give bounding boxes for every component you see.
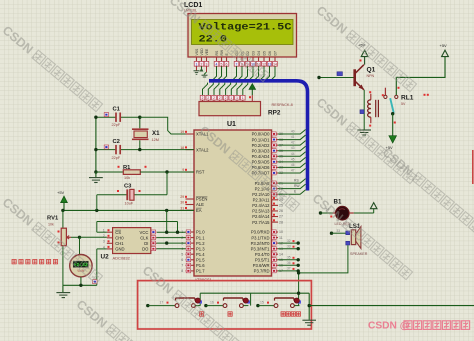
svg-text:P2.5/A13: P2.5/A13: [252, 209, 270, 214]
svg-text:44: 44: [291, 152, 295, 156]
svg-text:47: 47: [291, 168, 295, 172]
svg-text:6: 6: [226, 62, 228, 66]
svg-text:3: 3: [206, 62, 208, 66]
svg-text:U1: U1: [227, 121, 236, 128]
svg-text:DO: DO: [142, 247, 149, 252]
+5V arrow above Q1: [358, 43, 368, 65]
U2 wires: CS left loop, CLK/DI/DO to P1: [97, 232, 186, 249]
svg-text:8: 8: [181, 269, 183, 273]
svg-text:7: 7: [236, 62, 238, 66]
red CJK button labels: [200, 312, 301, 316]
svg-text:NPN: NPN: [367, 74, 375, 78]
svg-text:30: 30: [180, 201, 184, 205]
LCD data/control wires into bus: [213, 66, 275, 79]
+5V power arrow (left): [57, 190, 67, 210]
svg-text:40: 40: [291, 130, 295, 134]
svg-text:P3.7/RD: P3.7/RD: [254, 269, 270, 274]
U1 left pins: [186, 133, 195, 135]
U1 right pins P2: [272, 182, 279, 184]
speaker bottom wire to ground rail: [299, 245, 348, 293]
svg-text:CLK: CLK: [140, 236, 148, 241]
ADC U2 (ADC0832): [113, 228, 151, 254]
svg-text:2: 2: [219, 96, 221, 100]
svg-text:P3.3/INT1: P3.3/INT1: [251, 246, 271, 251]
svg-text:6: 6: [181, 258, 183, 262]
svg-text:RL1: RL1: [401, 95, 414, 102]
svg-text:SPEAKER: SPEAKER: [350, 252, 368, 256]
svg-text:27: 27: [279, 215, 283, 219]
svg-text:P0.2/AD2: P0.2/AD2: [252, 143, 271, 148]
svg-text:Q1: Q1: [367, 67, 376, 74]
svg-text:+5V: +5V: [440, 43, 448, 48]
svg-text:P3.4/T0: P3.4/T0: [255, 252, 270, 257]
svg-text:3: 3: [103, 240, 105, 244]
push button 2 (minus): [204, 298, 250, 308]
svg-text:32: 32: [287, 239, 291, 243]
svg-text:36: 36: [287, 261, 291, 265]
LED B1 (LED-RED): [319, 199, 354, 227]
svg-text:D3: D3: [251, 51, 255, 55]
svg-text:P0.3/AD3: P0.3/AD3: [252, 148, 271, 153]
svg-text:P2.3/A11: P2.3/A11: [253, 198, 271, 203]
svg-text:U2: U2: [101, 253, 110, 260]
svg-text:2: 2: [207, 96, 209, 100]
voltmeter: [70, 237, 92, 285]
svg-text:P2.7/A15: P2.7/A15: [252, 220, 270, 225]
svg-text:RS: RS: [215, 50, 219, 55]
svg-text:RESPACK-8: RESPACK-8: [272, 103, 293, 107]
svg-text:11: 11: [279, 236, 283, 240]
svg-text:22pF: 22pF: [112, 123, 121, 127]
svg-text:5: 5: [221, 62, 223, 66]
svg-text:VCC: VCC: [140, 230, 149, 235]
svg-text:25: 25: [279, 204, 283, 208]
svg-text:P1.0: P1.0: [196, 230, 205, 235]
svg-text:46: 46: [291, 163, 295, 167]
relay pole to +5V down arrow: [386, 114, 397, 150]
svg-text:33: 33: [287, 245, 291, 249]
U2 GND to ground rail: [97, 248, 107, 250]
svg-text:4: 4: [216, 62, 218, 66]
svg-text:2: 2: [202, 96, 204, 100]
svg-text:D5: D5: [262, 51, 266, 55]
left ground rail + ground: [89, 116, 103, 183]
svg-text:10: 10: [279, 230, 283, 234]
svg-text:+5V: +5V: [57, 190, 65, 195]
svg-text:CH1: CH1: [115, 241, 124, 246]
svg-text:PSEN: PSEN: [196, 197, 207, 202]
resistor R1 10k: [96, 165, 194, 180]
svg-text:P3.5/T1: P3.5/T1: [255, 258, 270, 263]
svg-text:12: 12: [262, 62, 266, 66]
bus (LCD data bus to P0/P2): [209, 81, 308, 191]
potentiometer RV1 10k (soil moisture sensor): [47, 216, 81, 286]
relay RL1 switch: [382, 87, 429, 116]
relay RL1 coil: [368, 91, 379, 126]
svg-text:P1.1: P1.1: [196, 235, 205, 240]
svg-text:P1.6: P1.6: [196, 263, 205, 268]
LED to +5V arrow: [354, 203, 377, 213]
stray red mark right edge: [472, 150, 474, 184]
svg-text:P1.4: P1.4: [196, 252, 205, 257]
svg-text:D6: D6: [268, 51, 272, 55]
supply loop to U2 VCC / CS: [97, 210, 186, 234]
LCD LCD1 (LM016L): [184, 2, 297, 57]
svg-text:P3.6/WR: P3.6/WR: [253, 263, 270, 268]
svg-text:2: 2: [201, 62, 203, 66]
svg-text:VSS: VSS: [195, 48, 199, 56]
capacitor C2 22pF: [96, 139, 194, 160]
push button 1 (set): [146, 298, 202, 308]
svg-text:2: 2: [225, 96, 227, 100]
U1 right pins P3: [272, 231, 279, 233]
svg-text:14: 14: [273, 62, 277, 66]
svg-text:P0.0/AD0: P0.0/AD0: [252, 132, 271, 137]
svg-text:GND: GND: [115, 247, 124, 252]
svg-text:17: 17: [160, 301, 164, 305]
svg-text:2: 2: [103, 234, 105, 238]
svg-text:RP2: RP2: [268, 110, 281, 117]
svg-text:31: 31: [180, 206, 184, 210]
svg-text:1: 1: [236, 96, 238, 100]
svg-text:RS: RS: [294, 179, 299, 183]
svg-text:35: 35: [287, 256, 291, 260]
+5V rail to EA: [61, 195, 194, 228]
svg-text:1: 1: [196, 62, 198, 66]
resistor pack RP2 (RESPACK-8): [199, 83, 293, 117]
svg-text:10k: 10k: [48, 222, 54, 226]
red label: soil moisture sensor (CJK placeholder): [12, 260, 58, 264]
svg-text:RST: RST: [196, 170, 205, 175]
svg-text:P3.0/RXD: P3.0/RXD: [251, 230, 270, 235]
svg-text:P2.6/A14: P2.6/A14: [252, 214, 270, 219]
svg-text:RW: RW: [220, 49, 224, 55]
svg-text:41: 41: [291, 135, 295, 139]
pink CSDN watermark: [368, 321, 470, 332]
svg-text:1: 1: [242, 96, 244, 100]
wire: crystal top node to XTAL1: [140, 117, 186, 134]
svg-text:ALE: ALE: [196, 202, 204, 207]
svg-text:RW: RW: [294, 184, 300, 188]
U1 right pins P0: [272, 133, 279, 135]
svg-text:P0.5/AD5: P0.5/AD5: [252, 160, 271, 165]
svg-text:33: 33: [337, 229, 341, 233]
crystal X1 12M: [132, 116, 160, 152]
svg-text:28: 28: [279, 220, 283, 224]
capacitor C3 10uF (electrolytic): [97, 172, 167, 206]
svg-text:VDD: VDD: [200, 48, 204, 56]
svg-text:P1.3: P1.3: [196, 246, 205, 251]
svg-text:26: 26: [279, 209, 283, 213]
svg-text:15: 15: [260, 301, 264, 305]
svg-text:1: 1: [230, 96, 232, 100]
speaker LS1: [330, 223, 368, 256]
svg-text:DI: DI: [144, 241, 148, 246]
svg-text:CS: CS: [115, 230, 121, 235]
svg-text:16: 16: [210, 301, 214, 305]
svg-text:12M: 12M: [152, 138, 159, 142]
svg-text:45: 45: [291, 157, 295, 161]
svg-text:ADC0832: ADC0832: [113, 255, 131, 260]
svg-text:43: 43: [291, 146, 295, 150]
svg-text:P2.2/A10: P2.2/A10: [252, 192, 270, 197]
svg-text:29: 29: [180, 195, 184, 199]
svg-text:22pF: 22pF: [112, 156, 121, 160]
LCD power pin symbols (VSS gnd, VDD +5V, VEE gnd): [194, 66, 208, 77]
svg-text:5V: 5V: [401, 102, 406, 106]
Q1 emitter to ground: [357, 90, 371, 135]
svg-text:P3.2/INT0: P3.2/INT0: [251, 241, 271, 246]
svg-text:13: 13: [268, 62, 272, 66]
svg-text:X1: X1: [152, 130, 160, 137]
bottom ground rail + ground: [56, 284, 96, 298]
svg-text:P0.4/AD4: P0.4/AD4: [252, 154, 271, 159]
svg-text:P1.2: P1.2: [196, 241, 205, 246]
svg-text:P3.1/TXD: P3.1/TXD: [251, 235, 269, 240]
svg-text:14: 14: [279, 252, 283, 256]
LCD pin names: [195, 48, 277, 56]
svg-text:C3: C3: [124, 184, 132, 190]
svg-text:XTAL2: XTAL2: [196, 147, 209, 152]
svg-text:CH0: CH0: [115, 236, 124, 241]
svg-text:P1.7: P1.7: [196, 269, 205, 274]
svg-text:10k: 10k: [124, 176, 130, 180]
+5V feed to relay contact (top right): [396, 43, 448, 95]
svg-text:C1: C1: [113, 107, 121, 113]
svg-text:D7: D7: [273, 51, 277, 55]
svg-text:C2: C2: [113, 139, 120, 145]
svg-text:42: 42: [291, 141, 295, 145]
svg-text:2: 2: [213, 96, 215, 100]
capacitor C1 22pF: [96, 107, 140, 128]
LCD pin stubs and pin-number boxes 1-14: [194, 57, 277, 66]
push button 3 (auto): [256, 298, 301, 308]
svg-text:P1.5: P1.5: [196, 258, 205, 263]
svg-text:P2.4/A12: P2.4/A12: [252, 203, 270, 208]
svg-text:VEE: VEE: [205, 48, 209, 56]
svg-text:5: 5: [181, 252, 183, 256]
red button box: [138, 281, 312, 329]
svg-text:EA: EA: [196, 208, 202, 213]
svg-text:10uF: 10uF: [125, 202, 134, 206]
svg-text:37: 37: [287, 267, 291, 271]
svg-text:7: 7: [181, 264, 183, 268]
transistor Q1 NPN: [317, 65, 375, 90]
svg-text:D4: D4: [257, 51, 261, 55]
wiper to U2 CH0: [80, 236, 107, 238]
svg-text:P0.1/AD1: P0.1/AD1: [252, 137, 271, 142]
ground rail inside box: [200, 292, 474, 326]
svg-text:RV1: RV1: [47, 216, 59, 222]
